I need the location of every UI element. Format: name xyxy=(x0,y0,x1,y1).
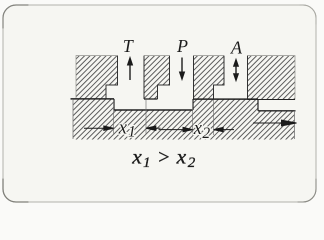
svg-text:x: x xyxy=(118,119,128,139)
svg-text:2: 2 xyxy=(202,125,210,142)
svg-text:P: P xyxy=(176,36,188,56)
svg-text:1: 1 xyxy=(128,124,136,141)
svg-text:x1>x2: x1>x2 xyxy=(131,145,196,172)
svg-text:A: A xyxy=(230,38,243,58)
svg-text:x: x xyxy=(193,119,203,139)
